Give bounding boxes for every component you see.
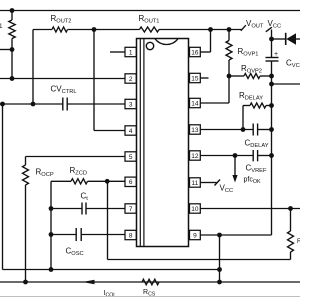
svg-text:CVCC: CVCC <box>286 59 300 69</box>
node junction top-left <box>10 8 15 13</box>
wire pin 11 stub <box>201 182 217 184</box>
node junction CVCTRL left <box>0 102 5 107</box>
wire left vertical <box>2 104 4 270</box>
svg-text:ROUT2: ROUT2 <box>51 14 72 24</box>
pin 14 <box>190 98 201 107</box>
node junction CVCTRL <box>31 102 36 107</box>
svg-text:13: 13 <box>191 127 199 134</box>
wire pin 13 net <box>201 129 254 131</box>
svg-text:ROUT1: ROUT1 <box>139 14 160 24</box>
pin 11 <box>190 178 201 187</box>
node junction rail RDELAY <box>269 103 274 108</box>
resistor ROUT1 <box>140 27 160 32</box>
wire pin 9 net <box>201 234 272 236</box>
node junction ground bottom x219 <box>217 280 222 285</box>
wire pin 7 net <box>51 208 125 210</box>
svg-text:1: 1 <box>0 23 3 30</box>
svg-text:RZCD: RZCD <box>70 166 87 176</box>
svg-text:COSC: COSC <box>66 247 84 257</box>
svg-text:15: 15 <box>191 75 199 82</box>
svg-text:3: 3 <box>129 101 133 108</box>
wire pin 10 net <box>201 208 301 210</box>
wire ground vertical x219 <box>219 235 221 282</box>
svg-text:ROVP2: ROVP2 <box>241 64 262 74</box>
pin 3 <box>125 99 136 108</box>
node junction ground mid <box>217 267 222 272</box>
resistor ROVP2 <box>229 74 272 79</box>
node junction pin9 ground <box>217 233 222 238</box>
node junction rail CVREF <box>269 153 274 158</box>
pin 4 <box>125 126 136 135</box>
pin 9 <box>190 230 201 239</box>
pin 16 <box>190 47 201 56</box>
svg-text:CVCTRL: CVCTRL <box>51 85 77 95</box>
svg-text:ICOL: ICOL <box>104 290 117 298</box>
resistor ROVP1 <box>226 30 232 77</box>
pin 6 <box>125 177 136 186</box>
svg-text:pfcOK: pfcOK <box>244 177 262 185</box>
svg-text:CVREF: CVREF <box>246 164 267 174</box>
capacitor COSC <box>76 228 81 241</box>
pin 12 <box>190 151 201 160</box>
svg-text:14: 14 <box>191 100 199 107</box>
svg-text:7: 7 <box>129 206 133 213</box>
wire ground stub right edge <box>272 83 301 85</box>
wire left resistor to pin2 net <box>11 50 13 79</box>
node junction rail ROVP2 <box>269 74 274 79</box>
arrow VREF down <box>232 156 237 183</box>
capacitor CVCTRL <box>63 98 67 111</box>
svg-text:Ct: Ct <box>81 192 89 202</box>
node junction VCC diode <box>269 37 274 42</box>
wire bottom ground net <box>0 281 300 283</box>
resistor R?1 (label cut off at left edge) <box>0 11 15 50</box>
resistor RZCD <box>51 179 125 184</box>
wire ROUT2 left branch vertical <box>32 30 34 105</box>
node junction ROUT1 ROUT2 <box>92 27 97 32</box>
pin 10 <box>190 204 201 213</box>
resistor R right edge (label cut) <box>288 209 303 260</box>
pin 8 <box>125 230 136 239</box>
svg-text:VOUT: VOUT <box>246 19 264 29</box>
wire pin 16 branch <box>201 30 211 53</box>
node junction ROVP1 top <box>227 27 232 32</box>
pin 7 <box>125 204 136 213</box>
node junction ROVP1 ROVP2 pin14 <box>227 74 232 79</box>
capacitor CVCC <box>266 51 279 61</box>
wire pin 5 net <box>26 157 126 166</box>
svg-text:9: 9 <box>193 232 197 239</box>
terminal VCC tick <box>266 27 272 32</box>
wire stub left edge y49 <box>0 49 12 51</box>
wire ground rail vertical <box>271 61 273 235</box>
svg-text:16: 16 <box>191 49 199 56</box>
svg-text:11: 11 <box>192 180 199 187</box>
wire right resistor to pin6 node <box>108 181 291 259</box>
node junction pin12 arrow <box>233 153 238 158</box>
node junction x51 Ct <box>49 206 54 211</box>
svg-text:VCC: VCC <box>268 19 282 29</box>
svg-text:VCC: VCC <box>220 184 234 194</box>
node junction rail CDELAY <box>269 127 274 132</box>
pin 2 <box>125 74 136 83</box>
svg-text:R: R <box>297 238 300 245</box>
capacitor CDELAY <box>253 124 271 136</box>
svg-text:4: 4 <box>129 128 133 135</box>
node junction RZCD pin6 <box>105 179 110 184</box>
wire VCC vertical <box>271 30 273 58</box>
svg-text:ROVP1: ROVP1 <box>238 47 259 57</box>
op-amp U1 PFC controller body (16-pin DIP) <box>137 39 189 247</box>
node junction ROCP ground <box>23 280 28 285</box>
capacitor Ct <box>82 203 86 215</box>
node junction rail gnd stub <box>269 82 274 87</box>
arrow ICOL current <box>83 280 95 285</box>
diode D1 <box>272 33 301 45</box>
node junction on pin2 wire <box>10 76 15 81</box>
svg-text:1: 1 <box>129 49 133 56</box>
node junction x51 ground <box>49 267 54 272</box>
svg-text:8: 8 <box>129 232 133 239</box>
wire pin 8 net <box>51 234 125 236</box>
svg-text:6: 6 <box>129 179 133 186</box>
wire ground mid horizontal <box>3 269 220 271</box>
wire pin 14 link <box>201 76 230 103</box>
node junction pin10 resistor <box>288 206 293 211</box>
svg-text:+: + <box>274 51 278 58</box>
node junction left resistor bottom <box>10 47 15 52</box>
pin 5 <box>125 152 136 161</box>
resistor RDELAY <box>243 103 272 130</box>
resistor ROCP <box>23 165 29 282</box>
wire top horizontal net <box>0 10 300 12</box>
wire pin 15 stub <box>201 77 209 79</box>
decor faint divider <box>0 296 300 298</box>
svg-text:CDELAY: CDELAY <box>245 139 269 149</box>
wire pin 12 net <box>201 155 254 157</box>
svg-text:2: 2 <box>129 76 133 83</box>
wire pin 1 stub <box>110 51 125 53</box>
wire ROUT2 ROUT1 horizontal net <box>33 29 242 31</box>
wire pin 2 net <box>0 78 125 80</box>
resistor ROUT2 <box>52 27 68 32</box>
svg-text:10: 10 <box>191 206 199 213</box>
svg-text:ROCP: ROCP <box>36 168 54 178</box>
svg-text:RDELAY: RDELAY <box>239 91 263 101</box>
wire pin 3 net <box>0 103 125 105</box>
pin 13 <box>190 125 201 134</box>
node junction x51 COSC <box>49 232 54 237</box>
wire pin 4 branch <box>94 30 125 131</box>
resistor RCS <box>142 279 159 285</box>
node junction pin16 branch <box>208 27 213 32</box>
pin 1 <box>125 47 136 56</box>
wire left branch vertical x51 <box>50 181 52 269</box>
pin 15 <box>190 73 201 82</box>
node junction pin13 RDELAY <box>241 127 246 132</box>
capacitor CVREF <box>253 150 271 161</box>
svg-text:5: 5 <box>129 154 133 161</box>
terminal VOUT tick <box>241 25 246 31</box>
svg-text:12: 12 <box>191 153 199 160</box>
terminal VCC pin11 tick <box>215 180 221 186</box>
